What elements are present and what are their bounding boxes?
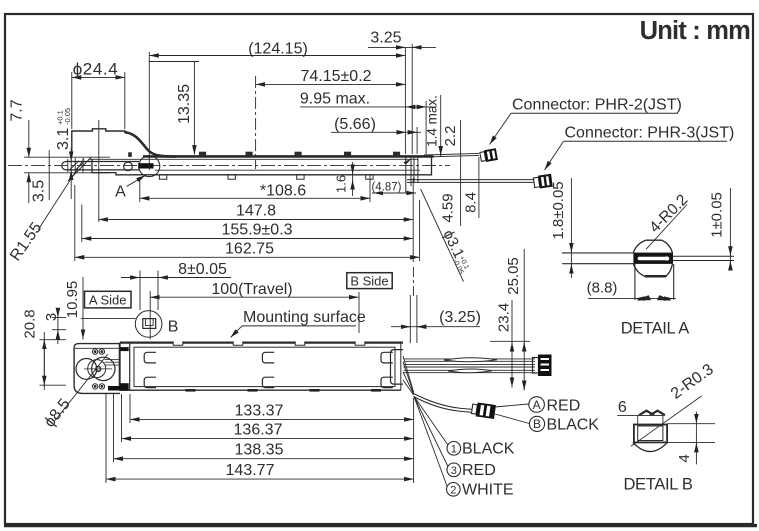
svg-text:162.75: 162.75 — [225, 241, 274, 258]
dim 23.4 — [511, 300, 513, 388]
dim (3.25) top view — [391, 267, 480, 343]
svg-text:BLACK: BLACK — [462, 441, 515, 458]
circled 1 BLACK — [447, 442, 461, 456]
DETAIL B bottom arc — [633, 443, 667, 452]
dim 155.9 — [82, 205, 413, 243]
svg-text:8.4: 8.4 — [463, 192, 480, 213]
DETAIL A lower box — [634, 264, 636, 300]
svg-text:ϕ24.4: ϕ24.4 — [73, 60, 119, 79]
dim 143.77 — [106, 394, 414, 483]
svg-text:10.95: 10.95 — [64, 281, 81, 319]
side view right end verticals — [406, 157, 418, 193]
svg-text:133.37: 133.37 — [235, 403, 284, 420]
svg-text:1.8±0.05: 1.8±0.05 — [550, 181, 567, 239]
dim 3 top view — [52, 310, 66, 344]
stray vertical — [48, 150, 50, 200]
wire to PHR-3 — [407, 179, 534, 181]
dim (5.66) — [331, 127, 421, 154]
svg-text:*108.6: *108.6 — [260, 183, 306, 200]
side view: body bottom outline — [92, 157, 432, 175]
dim (4.87) — [372, 192, 416, 194]
svg-text:Unit : mm: Unit : mm — [640, 17, 751, 45]
side view: knob cap outline — [72, 129, 125, 157]
svg-text:B: B — [533, 417, 541, 431]
DETAIL B break chevrons — [639, 411, 654, 416]
svg-text:A Side: A Side — [89, 292, 127, 307]
side view: lever blade — [62, 162, 139, 170]
circled B label — [529, 416, 544, 431]
svg-text:(3.25): (3.25) — [439, 309, 481, 326]
top view: top notches — [173, 341, 365, 345]
svg-text:7.7: 7.7 — [9, 99, 26, 121]
svg-text:RED: RED — [462, 462, 496, 479]
side view: top tabs — [129, 152, 400, 156]
dim 3.25 — [368, 44, 436, 154]
top view: inner rect — [134, 347, 395, 386]
dim 1+-0.05 — [729, 188, 731, 269]
B Side box — [347, 273, 392, 289]
side view: detail A circle — [139, 156, 160, 177]
svg-text:(124.15): (124.15) — [248, 41, 308, 58]
svg-text:1±0.05: 1±0.05 — [709, 192, 726, 238]
svg-text:Mounting surface: Mounting surface — [243, 309, 366, 326]
dim 6 — [617, 415, 663, 425]
circled 3 RED — [447, 463, 461, 477]
dim 1.8+-0.05 — [570, 178, 572, 278]
svg-text:23.4: 23.4 — [496, 303, 513, 332]
dim 20.8 — [40, 332, 67, 390]
side view: lever S-curve — [125, 132, 176, 156]
side view: bottom tabs — [159, 175, 373, 179]
svg-text:3.5: 3.5 — [31, 180, 48, 202]
dim 100 travel — [150, 291, 359, 340]
dim 4 detail B — [667, 412, 715, 465]
top view: screw marks — [92, 349, 104, 389]
svg-text:143.77: 143.77 — [226, 462, 275, 479]
dim 1.4 max — [440, 95, 442, 156]
side view: body top thick line — [143, 155, 434, 158]
dim 3.5 — [28, 173, 30, 203]
svg-text:DETAIL B: DETAIL B — [623, 476, 692, 494]
svg-text:3.25: 3.25 — [370, 30, 401, 47]
top view: lever slider strip — [119, 343, 129, 391]
travel center dash-dot — [255, 76, 257, 169]
svg-text:2-R0.3: 2-R0.3 — [668, 361, 717, 403]
svg-text:1.6: 1.6 — [334, 175, 349, 193]
top view: right end bracket — [391, 350, 404, 385]
svg-text:R1.55: R1.55 — [7, 219, 45, 264]
svg-text:74.15±0.2: 74.15±0.2 — [300, 68, 371, 85]
dim 1.6 — [352, 162, 354, 196]
DETAIL A head outline — [633, 240, 672, 252]
connector PHR-3 — [533, 174, 553, 189]
wire to PHR-2 — [424, 153, 479, 155]
dim 108.6 — [140, 174, 370, 202]
side view: center line — [8, 165, 450, 167]
svg-text:2.2: 2.2 — [442, 126, 459, 147]
dim 147.8 — [98, 120, 413, 222]
dim 138.35 — [114, 394, 414, 462]
top view: motor block — [74, 344, 120, 394]
DETAIL A slit right lines — [672, 255, 734, 257]
dim 13.35 — [149, 62, 199, 155]
detail B circle marker — [135, 311, 162, 338]
svg-text:3.1: 3.1 — [55, 128, 72, 150]
leader phi3.1 — [421, 189, 464, 282]
side view: slot black bar — [138, 163, 153, 168]
leaders to A/B labels — [495, 404, 528, 407]
circled A label — [529, 397, 545, 413]
svg-text:136.37: 136.37 — [234, 422, 283, 439]
leader 4-R0.2 — [646, 205, 687, 250]
top view: mounting surface top line — [120, 341, 403, 343]
top view: bottom edge dashes — [186, 389, 382, 392]
circled 2 WHITE — [447, 483, 461, 497]
side view: body band upper thin line — [88, 158, 418, 160]
leader phi8.5 — [55, 354, 108, 421]
dim (124.15) — [149, 48, 405, 170]
svg-text:138.35: 138.35 — [235, 442, 284, 459]
svg-text:BLACK: BLACK — [547, 417, 600, 434]
bottom thick bar — [4, 524, 757, 527]
dim phi24.4 — [72, 72, 125, 129]
svg-text:ϕ8.5: ϕ8.5 — [41, 396, 74, 431]
top view PHR-3 connector — [533, 358, 539, 374]
2-pin connector EHR — [471, 402, 496, 419]
svg-text:DETAIL A: DETAIL A — [621, 320, 690, 338]
side view: body band lower thin line — [155, 169, 420, 171]
svg-text:1: 1 — [451, 443, 457, 455]
svg-text:100(Travel): 100(Travel) — [211, 281, 292, 298]
wire twist lenses — [444, 358, 497, 362]
blade tick top view — [81, 318, 136, 320]
dim 25.05 — [490, 249, 530, 390]
svg-text:RED: RED — [547, 398, 581, 415]
dim 10.95 — [82, 277, 84, 340]
dim 74.15 — [256, 83, 406, 85]
dim 133.37 — [130, 394, 414, 483]
bundle leaders to 1 3 2 — [414, 396, 448, 445]
dim (8.8) — [588, 298, 676, 300]
A Side box — [85, 291, 132, 308]
svg-text:Connector: PHR-2(JST): Connector: PHR-2(JST) — [512, 97, 682, 114]
svg-text:2: 2 — [450, 484, 456, 496]
svg-text:B: B — [168, 319, 179, 336]
svg-text:3: 3 — [451, 465, 457, 477]
DETAIL A slot left lines — [562, 252, 634, 254]
dim R1.55 — [38, 159, 84, 230]
svg-text:8±0.05: 8±0.05 — [178, 261, 227, 278]
svg-text:3: 3 — [43, 313, 60, 321]
top view: body outline — [120, 343, 401, 391]
exit wire curve to 2pin connector — [414, 394, 472, 410]
svg-text:155.9±0.3: 155.9±0.3 — [221, 222, 292, 239]
svg-text:4.59: 4.59 — [440, 193, 457, 222]
side view right end arrow mark — [404, 159, 412, 165]
wire bundle diagonals — [403, 356, 414, 395]
dim 9.95 max — [300, 101, 432, 154]
svg-text:(4.87): (4.87) — [371, 182, 401, 194]
side view: hole circle — [124, 162, 133, 171]
top view: bracket cutouts — [144, 352, 393, 387]
dim 2.2 and 4.59 — [460, 120, 462, 226]
svg-text:WHITE: WHITE — [462, 482, 514, 499]
svg-text:6: 6 — [618, 399, 627, 416]
svg-text:(5.66): (5.66) — [334, 116, 376, 133]
leader 2-R0.3 — [631, 396, 702, 446]
dim 3.1 — [70, 148, 72, 199]
svg-text:4: 4 — [676, 454, 693, 462]
connector PHR-2 — [480, 148, 498, 163]
svg-text:Connector: PHR-3(JST): Connector: PHR-3(JST) — [565, 125, 735, 142]
top view: wires to PHR-3 — [404, 359, 536, 373]
svg-text:147.8: 147.8 — [236, 203, 276, 220]
DETAIL A slot black bar — [633, 253, 673, 264]
svg-text:A: A — [115, 184, 126, 201]
svg-text:A: A — [533, 398, 541, 412]
dim 8.4 — [478, 157, 480, 218]
svg-text:9.95 max.: 9.95 max. — [300, 91, 370, 108]
blade tick lines — [24, 156, 110, 158]
svg-text:-0.05: -0.05 — [63, 108, 72, 125]
dim 136.37 — [122, 394, 414, 442]
side view: blade hatch — [68, 158, 91, 182]
svg-text:4-R0.2: 4-R0.2 — [646, 191, 691, 236]
top view: motor circles — [76, 359, 97, 380]
svg-text:13.35: 13.35 — [176, 84, 193, 124]
svg-text:20.8: 20.8 — [22, 309, 39, 338]
svg-text:1.4 max.: 1.4 max. — [425, 95, 440, 147]
svg-text:25.05: 25.05 — [505, 257, 522, 295]
DETAIL A break chevrons — [638, 296, 651, 301]
svg-text:B Side: B Side — [350, 273, 388, 288]
svg-text:(8.8): (8.8) — [587, 280, 618, 297]
DETAIL B square — [634, 425, 667, 443]
dim 7.7 — [28, 120, 30, 157]
dim 8+-0.05 — [121, 271, 231, 311]
label A leader — [127, 175, 146, 186]
dim 162.75 — [75, 178, 420, 262]
